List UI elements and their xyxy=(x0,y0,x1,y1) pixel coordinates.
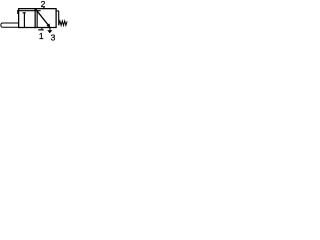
port 1 stem xyxy=(41,28,43,29)
background xyxy=(0,0,72,43)
svg-text:2: 2 xyxy=(41,0,46,9)
crossbar of stem A xyxy=(23,12,26,14)
diagonal flow path (right box) xyxy=(36,9,49,25)
spring hook (top connector) xyxy=(57,10,59,12)
arrowhead / thickened edge at left end of flow bar xyxy=(17,10,19,14)
blocked-port stem A (left box) xyxy=(23,12,25,28)
internal flow bar (upper horizontal line) xyxy=(18,10,41,12)
manual push button actuator (left) xyxy=(1,23,18,27)
exhaust triangle at port 3 xyxy=(47,30,52,33)
svg-text:3: 3 xyxy=(51,32,56,42)
svg-text:1: 1 xyxy=(39,31,44,41)
arrowhead of diagonal path xyxy=(46,23,50,27)
return spring zigzag xyxy=(59,21,67,26)
port 3 stub xyxy=(49,28,51,30)
port 2 stub xyxy=(43,7,45,9)
stem B (right box, hangs from flow bar to bottom) xyxy=(36,12,38,29)
position divider xyxy=(34,8,36,28)
valve body (two-position boxes) xyxy=(19,9,56,28)
port 1 crossbar xyxy=(38,29,43,31)
spring stem (vertical) xyxy=(58,11,60,25)
